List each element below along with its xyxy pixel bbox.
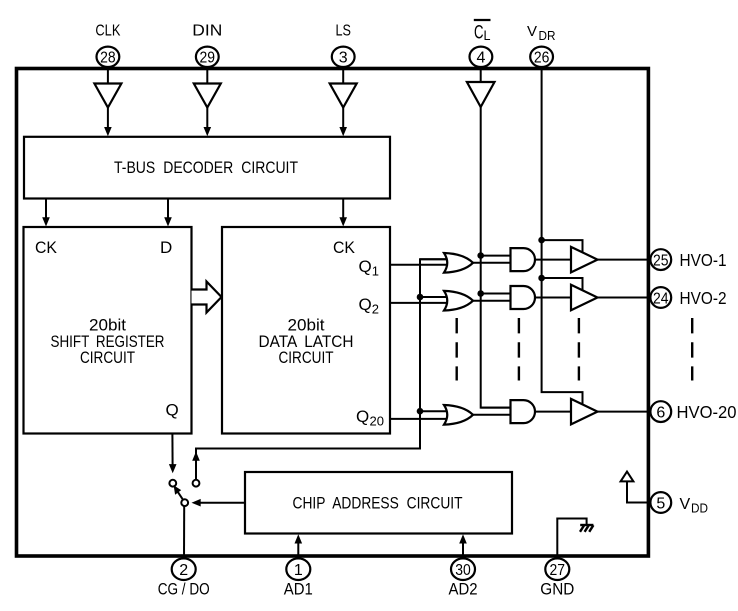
svg-text:CIRCUIT: CIRCUIT bbox=[279, 348, 334, 367]
svg-text:27: 27 bbox=[550, 562, 566, 579]
wire OR output to AND gate row HVO-20 bbox=[473, 414, 511, 416]
pin 5 (VDD) bbox=[650, 492, 671, 513]
wire OR output to AND gate row HVO-2 bbox=[473, 300, 511, 302]
power symbol VDD (open triangle) bbox=[621, 472, 634, 482]
svg-text:3: 3 bbox=[339, 50, 348, 67]
svg-text:5: 5 bbox=[656, 495, 665, 512]
svg-text:DR: DR bbox=[539, 28, 556, 43]
svg-text:HVO-2: HVO-2 bbox=[680, 288, 727, 308]
wire VDR net line C bbox=[542, 67, 583, 405]
output buffer row HVO-20 bbox=[571, 399, 598, 425]
svg-text:AD2: AD2 bbox=[449, 580, 478, 598]
output buffer row HVO-1 bbox=[571, 247, 598, 273]
switch contact a (from Q) bbox=[169, 480, 176, 487]
wire pin 4 to input buffer bbox=[480, 67, 482, 82]
svg-text:L: L bbox=[484, 27, 491, 43]
wire AND output to buffer row HVO-20 bbox=[535, 411, 571, 413]
junction VDR tap row HVO-1 bbox=[538, 237, 545, 244]
input buffer CLK bbox=[94, 84, 121, 108]
svg-text:25: 25 bbox=[653, 252, 669, 269]
svg-text:T-BUS DECODER CIRCUIT: T-BUS DECODER CIRCUIT bbox=[114, 158, 298, 177]
wire OR output to AND gate row HVO-1 bbox=[473, 262, 511, 264]
svg-text:Q: Q bbox=[356, 407, 369, 426]
svg-text:4: 4 bbox=[476, 50, 485, 67]
svg-text:CG / DO: CG / DO bbox=[158, 580, 210, 598]
OR gate row HVO-1 bbox=[444, 253, 473, 273]
pin 26 (VDR) bbox=[530, 47, 553, 67]
input buffer DIN bbox=[194, 84, 221, 108]
AND gate row HVO-2 bbox=[511, 286, 536, 309]
pin 28 (CLK) bbox=[97, 47, 120, 67]
pin 29 (DIN) bbox=[196, 47, 219, 67]
svg-text:Q2: Q2 bbox=[359, 295, 379, 317]
pin 6 (HVO-20) bbox=[650, 401, 671, 422]
svg-text:CLK: CLK bbox=[95, 23, 120, 40]
wire VDR tap to buffer row HVO-1 bbox=[542, 240, 583, 253]
svg-text:DIN: DIN bbox=[192, 23, 222, 40]
pin 2 (CG / DO) bbox=[172, 558, 196, 580]
pin 4 (CL-bar) bbox=[470, 47, 493, 67]
pin 30 (AD2) bbox=[451, 558, 475, 580]
svg-text:CHIP ADDRESS CIRCUIT: CHIP ADDRESS CIRCUIT bbox=[293, 493, 463, 512]
ground symbol (chassis) bbox=[580, 525, 593, 532]
svg-text:Q1: Q1 bbox=[359, 257, 379, 279]
svg-text:6: 6 bbox=[656, 404, 665, 421]
wire pin LS to input buffer bbox=[342, 67, 344, 84]
wire T-BUS decoder to data latch CK bbox=[342, 199, 344, 219]
svg-text:HVO-1: HVO-1 bbox=[680, 250, 727, 270]
pin 24 (HVO-2) bbox=[650, 287, 671, 308]
wire pin AD1 to chip address circuit bbox=[297, 543, 299, 559]
junction VDR tap row HVO-2 bbox=[538, 275, 545, 282]
20bit shift register circuit block U2 bbox=[24, 227, 192, 434]
junction line A row 2 bbox=[417, 294, 424, 301]
svg-text:D: D bbox=[160, 238, 172, 257]
chip outline border bbox=[17, 69, 649, 557]
20bit data latch circuit block U3 bbox=[222, 227, 390, 434]
arrowhead line A from switch bbox=[192, 452, 200, 461]
svg-text:LS: LS bbox=[335, 23, 351, 40]
svg-text:24: 24 bbox=[653, 290, 669, 307]
svg-text:2: 2 bbox=[179, 562, 188, 579]
wire T-BUS decoder to shift register CK bbox=[45, 199, 47, 219]
wire AND output to buffer row HVO-2 bbox=[535, 297, 571, 299]
wire buffer CLK to T-BUS decoder bbox=[107, 108, 109, 129]
svg-text:C: C bbox=[474, 23, 484, 44]
wire line A to OR upper input row HVO-20 bbox=[420, 410, 449, 412]
wire CL-bar to AND upper input row HVO-1 bbox=[481, 255, 511, 257]
wire line A to OR upper input row HVO-2 bbox=[420, 296, 449, 298]
wire buffer to pin 24 bbox=[598, 297, 651, 299]
switch lever bbox=[177, 491, 183, 501]
wire switch common to pin 2 bbox=[183, 506, 185, 559]
svg-text:29: 29 bbox=[200, 50, 216, 67]
switch contact b (to line A) bbox=[193, 480, 200, 487]
wire buffer to pin 25 bbox=[598, 259, 651, 261]
wire T-BUS decoder to shift register D bbox=[167, 199, 169, 219]
dashed repetition line bbox=[456, 318, 458, 381]
OR gate row HVO-2 bbox=[444, 291, 473, 311]
svg-text:1: 1 bbox=[294, 562, 303, 579]
wire Q to switch contact bbox=[171, 434, 173, 466]
wire CL-bar to AND upper input row HVO-2 bbox=[481, 293, 511, 295]
wire VDR tap to buffer row HVO-2 bbox=[542, 278, 583, 291]
wire pin AD2 to chip address circuit bbox=[462, 543, 464, 559]
input buffer LS bbox=[330, 84, 357, 108]
svg-text:DD: DD bbox=[691, 501, 708, 516]
pin 27 (GND) bbox=[545, 558, 569, 580]
wire buffer LS to T-BUS decoder bbox=[342, 108, 344, 129]
wire Q line to OR gate row HVO-2 bbox=[390, 302, 449, 304]
svg-text:30: 30 bbox=[455, 562, 471, 579]
svg-text:CK: CK bbox=[35, 238, 58, 257]
junction line B row HVO-1 bbox=[477, 252, 484, 259]
pin 1 (AD1) bbox=[286, 558, 310, 580]
wire chip address control to switch bbox=[200, 502, 245, 504]
block arrow shift register to data latch bbox=[192, 282, 222, 313]
svg-text:CK: CK bbox=[333, 238, 356, 257]
svg-text:AD1: AD1 bbox=[284, 580, 313, 598]
wire CL-bar net line B bbox=[481, 107, 511, 408]
dashed repetition line bbox=[578, 318, 580, 381]
AND gate row HVO-20 bbox=[511, 400, 536, 423]
svg-text:V: V bbox=[680, 496, 691, 513]
svg-text:CIRCUIT: CIRCUIT bbox=[80, 348, 135, 367]
svg-text:V: V bbox=[527, 23, 537, 40]
wire pin DIN to input buffer bbox=[206, 67, 208, 84]
switch common contact bbox=[181, 499, 188, 506]
wire pin 5 VDD to power symbol bbox=[627, 481, 651, 502]
wire CL-bar to AND upper input row HVO-20 bbox=[481, 407, 511, 409]
dashed repetition line bbox=[518, 318, 520, 381]
wire buffer to pin 6 bbox=[598, 411, 651, 413]
pin 3 (LS) bbox=[332, 47, 355, 67]
input buffer CL-bar bbox=[467, 82, 495, 107]
OR gate row HVO-20 bbox=[444, 405, 473, 425]
wire Q line to OR gate row HVO-20 bbox=[390, 418, 449, 420]
svg-text:Q: Q bbox=[166, 401, 179, 420]
svg-text:20: 20 bbox=[370, 413, 385, 428]
wire buffer DIN to T-BUS decoder bbox=[206, 108, 208, 129]
AND gate row HVO-1 bbox=[511, 248, 536, 271]
svg-text:HVO-20: HVO-20 bbox=[677, 402, 737, 422]
T-BUS decoder circuit block U1 bbox=[24, 137, 390, 199]
wire pin CLK to input buffer bbox=[107, 67, 109, 84]
chip address circuit block U4 bbox=[245, 472, 512, 534]
wire line A to OR upper input row HVO-1 bbox=[420, 258, 449, 260]
svg-text:GND: GND bbox=[540, 580, 574, 598]
pin 25 (HVO-1) bbox=[650, 249, 671, 270]
dashed repetition line bbox=[691, 318, 693, 381]
junction line A row 20 bbox=[417, 408, 424, 415]
wire pin 27 GND to ground symbol bbox=[557, 519, 586, 559]
svg-text:28: 28 bbox=[100, 50, 116, 67]
wire DO feedback net line A bbox=[196, 259, 448, 479]
wire AND output to buffer row HVO-1 bbox=[535, 259, 571, 261]
output buffer row HVO-2 bbox=[571, 285, 598, 311]
wire Q line to OR gate row HVO-1 bbox=[390, 264, 449, 266]
junction line B row HVO-2 bbox=[477, 290, 484, 297]
svg-text:26: 26 bbox=[534, 50, 550, 67]
